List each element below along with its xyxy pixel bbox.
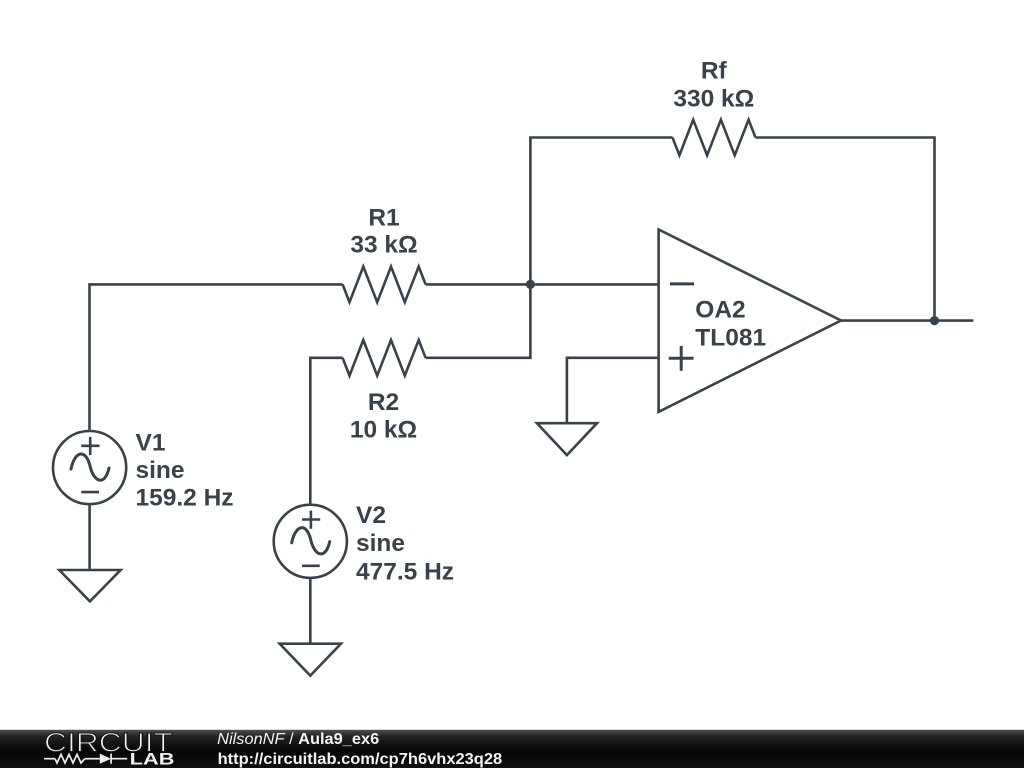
svg-text:LAB: LAB bbox=[130, 751, 175, 768]
wire: feedback riser from node up to Rf bbox=[530, 138, 672, 285]
svg-text:NilsonNF / Aula9_ex6: NilsonNF / Aula9_ex6 bbox=[217, 731, 379, 748]
ground below V1 bbox=[59, 570, 120, 601]
svg-text:V1: V1 bbox=[136, 429, 166, 456]
svg-text:159.2 Hz: 159.2 Hz bbox=[136, 485, 234, 512]
svg-text:sine: sine bbox=[356, 530, 405, 557]
resistor R2 zigzag bbox=[343, 340, 426, 376]
op-amp inverting input marker bbox=[670, 282, 694, 285]
svg-text:http://circuitlab.com/cp7h6vhx: http://circuitlab.com/cp7h6vhx23q28 bbox=[218, 751, 503, 768]
resistor Rf zigzag bbox=[673, 120, 756, 156]
label V1 sine 159.2 Hz bbox=[136, 429, 234, 511]
label OA2 TL081 bbox=[695, 296, 766, 351]
svg-text:Rf: Rf bbox=[701, 58, 728, 85]
wire: node to op-amp inverting input bbox=[530, 283, 658, 286]
wire: V1 to ground bbox=[88, 504, 91, 570]
op-amp non-inverting input marker bbox=[669, 346, 694, 371]
voltage source V1 bbox=[53, 431, 126, 504]
wire: V2 to ground bbox=[309, 578, 312, 644]
wire: R2 left lead down to V2 bbox=[310, 358, 342, 505]
node: inverting input junction dot bbox=[526, 280, 535, 289]
wire: V1 top lead up and across to R1 bbox=[90, 284, 343, 431]
svg-text:TL081: TL081 bbox=[695, 325, 766, 352]
svg-text:sine: sine bbox=[136, 457, 185, 484]
svg-text:R2: R2 bbox=[368, 389, 399, 416]
wire: Rf to output node down right side bbox=[756, 138, 935, 321]
label V2 sine 477.5 Hz bbox=[356, 502, 454, 586]
op-amp U1 triangle bbox=[659, 230, 841, 412]
svg-text:33 kΩ: 33 kΩ bbox=[350, 232, 417, 259]
svg-text:OA2: OA2 bbox=[695, 296, 745, 323]
voltage source V2 bbox=[274, 505, 347, 578]
wire: op-amp output bbox=[841, 319, 973, 322]
wire: non-inverting input to ground bbox=[567, 358, 659, 423]
svg-text:V2: V2 bbox=[356, 502, 386, 529]
svg-text:330 kΩ: 330 kΩ bbox=[673, 85, 754, 112]
CircuitLab logo resistor-diode glyph bbox=[44, 754, 127, 764]
svg-text:R1: R1 bbox=[368, 204, 399, 231]
svg-text:10 kΩ: 10 kΩ bbox=[350, 417, 417, 444]
ground below V2 bbox=[280, 644, 341, 676]
ground at op-amp non-inverting input bbox=[537, 423, 597, 455]
resistor R1 zigzag bbox=[343, 267, 426, 303]
svg-text:477.5 Hz: 477.5 Hz bbox=[356, 559, 454, 586]
node: output junction dot bbox=[930, 316, 939, 325]
footer bar bbox=[0, 730, 1024, 768]
wire: R1 to inverting node bbox=[426, 283, 531, 286]
wire: node down to R2 bbox=[426, 284, 531, 357]
